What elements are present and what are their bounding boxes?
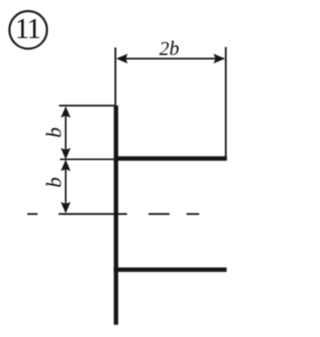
dimension b lower (vertical) — [61, 160, 71, 214]
extension line left vertical (above web) — [114, 48, 116, 107]
svg-text:2b: 2b — [159, 38, 179, 60]
extension line horizontal upper — [59, 105, 116, 107]
figure number badge circle 11 — [9, 11, 47, 49]
dimension b upper (vertical) — [61, 106, 71, 159]
extension line right vertical — [225, 47, 227, 157]
web (vertical thick bar) — [114, 106, 118, 325]
svg-text:b: b — [42, 177, 66, 188]
svg-text:b: b — [42, 127, 66, 138]
centerline dashed — [27, 213, 199, 215]
bottom flange (thick horizontal bar) — [114, 268, 227, 272]
dimension line 2b — [116, 54, 225, 64]
extension line horizontal middle — [60, 158, 114, 160]
svg-text:11: 11 — [15, 13, 40, 45]
top flange (thick horizontal bar) — [114, 156, 227, 161]
